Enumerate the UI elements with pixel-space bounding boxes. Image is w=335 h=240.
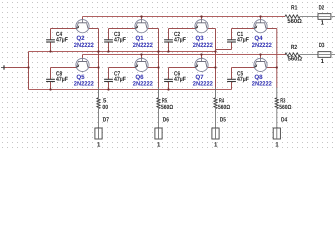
- wire R3 to D4: [276, 109, 278, 128]
- svg-text:560Ω: 560Ω: [288, 56, 303, 63]
- svg-text:560Ω: 560Ω: [279, 104, 291, 111]
- svg-text:D5: D5: [220, 117, 227, 124]
- capacitor C3 47µF: [104, 40, 113, 42]
- svg-text:R1: R1: [291, 5, 298, 12]
- svg-text:2N2222: 2N2222: [193, 42, 214, 49]
- svg-text:2N2222: 2N2222: [252, 81, 273, 88]
- junction dots bottom rail: [49, 88, 51, 90]
- svg-text:47µF: 47µF: [237, 37, 249, 44]
- wire Q5 collector up: [82, 55, 84, 59]
- transistor Q4 (2N2222 NPN): [254, 20, 267, 33]
- wire R4 to D5: [215, 109, 217, 128]
- svg-text:47µF: 47µF: [114, 37, 126, 44]
- wire C1 bottom riser jog: [231, 42, 233, 50]
- wire base lead C6-Q7: [169, 67, 196, 69]
- svg-text:2N2222: 2N2222: [133, 42, 154, 49]
- wire 5 to D7: [98, 109, 100, 128]
- wire Q1 right lead: [147, 28, 158, 30]
- wire C8 bottom riser: [50, 82, 52, 90]
- wire R5 to D6: [158, 109, 160, 128]
- wire input port lead: [4, 67, 28, 69]
- wire Q5 right lead: [88, 67, 98, 69]
- wire Q1 collector up: [141, 17, 143, 21]
- diode D6 (box symbol): [155, 128, 162, 139]
- wire Q8 right lead: [266, 67, 277, 69]
- wire R2 to D3: [300, 54, 318, 56]
- svg-text:00: 00: [102, 104, 108, 111]
- svg-text:D7: D7: [103, 117, 110, 124]
- svg-text:560Ω: 560Ω: [287, 18, 302, 25]
- svg-text:47µF: 47µF: [237, 76, 249, 83]
- diode D2 (box symbol): [318, 14, 331, 20]
- svg-text:47µF: 47µF: [174, 76, 186, 83]
- wire C4 top riser: [50, 29, 52, 40]
- wire drop lead lower col2: [158, 88, 160, 98]
- wire C3 top riser: [108, 29, 110, 40]
- svg-text:560Ω: 560Ω: [161, 104, 173, 111]
- wire C2 top riser: [168, 29, 170, 40]
- wire drop lead lower col4: [276, 88, 278, 98]
- capacitor C1 47µF: [227, 40, 236, 42]
- wire rail B row2 top: [83, 54, 287, 56]
- wire C6 bottom riser: [168, 82, 170, 90]
- transistor Q7 (2N2222 NPN): [195, 58, 208, 71]
- transistor Q8 (2N2222 NPN): [254, 58, 267, 71]
- svg-text:2N2222: 2N2222: [133, 81, 154, 88]
- capacitor C8 47µF: [46, 79, 55, 81]
- wire bottom rail: [29, 89, 232, 91]
- wire through D3 to edge: [318, 54, 335, 56]
- transistor Q3 (2N2222 NPN): [195, 20, 208, 33]
- wire C5 bottom riser: [231, 82, 233, 90]
- capacitor C5 47µF: [227, 79, 236, 81]
- diode D5 (box symbol): [212, 128, 219, 139]
- wire Q6 right lead: [147, 67, 158, 69]
- svg-text:47µF: 47µF: [174, 37, 186, 44]
- svg-text:2N2222: 2N2222: [193, 81, 214, 88]
- wire Q3 collector up: [201, 17, 203, 21]
- resistor R4 560Ω (bottom chain 3): [214, 98, 217, 109]
- resistor R3 560Ω (bottom chain 4): [275, 98, 278, 109]
- wire base lead C2-Q3: [169, 28, 196, 30]
- wire R1 to D2: [300, 16, 318, 18]
- svg-text:R2: R2: [291, 44, 298, 51]
- wire rail A mid: [29, 51, 216, 53]
- wire Q4 collector up: [260, 17, 262, 21]
- wire drop vertical col3: [215, 29, 217, 88]
- resistor R5 560Ω (bottom chain 2): [157, 98, 160, 109]
- resistor R1 560Ω: [285, 15, 300, 18]
- wire base lead C5-Q8: [232, 67, 255, 69]
- wire top rail row1: [83, 16, 286, 18]
- capacitor C7 47µF: [104, 79, 113, 81]
- svg-text:2N2222: 2N2222: [74, 81, 95, 88]
- svg-text:47µF: 47µF: [56, 76, 68, 83]
- capacitor C4 47µF: [46, 40, 55, 42]
- transistor Q5 (2N2222 NPN): [76, 58, 89, 71]
- wire Q6 collector up: [141, 55, 143, 59]
- wire Q7 collector up: [201, 55, 203, 59]
- capacitor C2 47µF: [164, 40, 173, 42]
- svg-text:D2: D2: [319, 5, 325, 12]
- wire through D2 to edge: [318, 16, 335, 18]
- transistor Q1 (2N2222 NPN): [135, 20, 148, 33]
- svg-text:47µF: 47µF: [114, 76, 126, 83]
- wire drop lead lower col3: [215, 88, 217, 98]
- svg-text:1: 1: [157, 141, 161, 148]
- wire C1 top riser: [231, 29, 233, 40]
- wire Q8 collector up: [260, 55, 262, 59]
- wire base lead C8-Q5: [51, 67, 77, 69]
- wire C6 top riser: [168, 68, 170, 80]
- transistor Q6 (2N2222 NPN): [135, 58, 148, 71]
- wire C2 bottom riser: [168, 42, 170, 52]
- diode D4 (box symbol): [273, 128, 280, 139]
- resistor R2 560Ω: [285, 53, 300, 56]
- wire C3 bottom riser: [108, 42, 110, 52]
- resistor 5 00 (bottom chain 1): [97, 98, 100, 109]
- wire C7 bottom riser: [108, 82, 110, 90]
- svg-text:D4: D4: [281, 117, 288, 124]
- wire Q3 right lead: [207, 28, 215, 30]
- diode D7 (box symbol): [95, 128, 102, 139]
- wire C5 top riser: [231, 68, 233, 80]
- wire C4 bottom riser: [50, 42, 52, 52]
- junction dots row2 leads: [97, 66, 99, 68]
- wire base lead C7-Q6: [109, 67, 136, 69]
- svg-text:D6: D6: [163, 117, 170, 124]
- wire C8 top riser: [50, 68, 52, 80]
- svg-text:2N2222: 2N2222: [74, 42, 95, 49]
- wire base lead C1-Q4: [232, 28, 255, 30]
- wire Q2 collector up: [82, 17, 84, 21]
- wire base lead C4-Q2: [51, 28, 77, 30]
- junction dots top rail: [140, 15, 142, 17]
- wire Q4 right lead: [266, 28, 277, 30]
- wire drop vertical col2: [158, 29, 160, 88]
- capacitor C6 47µF: [164, 79, 173, 81]
- svg-text:2N2222: 2N2222: [252, 42, 273, 49]
- svg-text:47µF: 47µF: [56, 37, 68, 44]
- svg-text:560Ω: 560Ω: [218, 104, 230, 111]
- svg-text:D3: D3: [319, 42, 325, 49]
- junction dots rail A: [49, 50, 51, 52]
- junction dot port: [27, 66, 29, 68]
- transistor Q2 (2N2222 NPN): [76, 20, 89, 33]
- wire C7 top riser: [108, 68, 110, 80]
- wire left vertical: [28, 52, 30, 90]
- wire drop vertical col4: [276, 29, 278, 88]
- wire Q2 right lead: [88, 28, 98, 30]
- junction dots rail B: [140, 53, 142, 55]
- wire drop vertical col1: [98, 29, 100, 88]
- svg-text:1: 1: [97, 141, 101, 148]
- input port symbol: [1, 65, 4, 69]
- wire Q7 right lead: [207, 67, 215, 69]
- wire drop lead lower col1: [98, 88, 100, 98]
- diode D3 (box symbol): [318, 52, 331, 58]
- svg-text:1: 1: [214, 141, 218, 148]
- wire base lead C3-Q1: [109, 28, 136, 30]
